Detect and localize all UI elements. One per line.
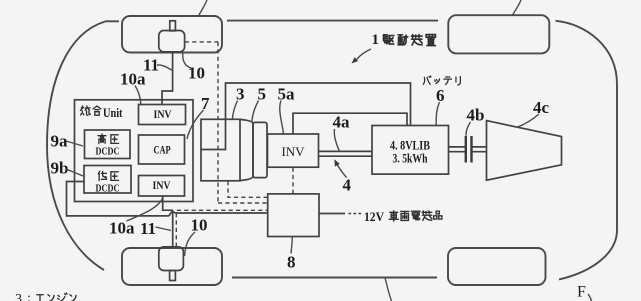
wheel front-left (122, 16, 222, 53)
label バッテリ (423, 76, 460, 85)
svg-text:4b: 4b (467, 106, 485, 125)
converter 高圧DCDC (85, 130, 131, 159)
svg-text:DCDC: DCDC (96, 184, 120, 195)
svg-text:10a: 10a (109, 219, 135, 238)
svg-text:10a: 10a (120, 70, 146, 89)
shaft 4a double line (319, 151, 373, 156)
svg-text:10: 10 (191, 216, 208, 235)
engine 3 block (201, 119, 240, 181)
wheel front-right (448, 15, 549, 53)
svg-text:CAP: CAP (154, 143, 171, 157)
svg-text:DCDC: DCDC (96, 147, 120, 158)
coupling 4b bars (466, 136, 472, 163)
shaft 11 rear (163, 196, 173, 247)
svg-text:4a: 4a (333, 113, 351, 132)
wheel rear-left (122, 248, 222, 285)
motor 10 rear stub (170, 271, 176, 281)
wire dashed from motor 10 front to node (185, 41, 218, 43)
wheel rear-right (448, 248, 546, 285)
wire MG to DC bus (226, 83, 411, 126)
transmission bell 5 (240, 119, 253, 180)
car body outline (47, 21, 617, 280)
dashed wire motor 10 rear to box 8 (176, 210, 267, 247)
svg-text:INV: INV (281, 144, 305, 159)
svg-text:9b: 9b (51, 159, 69, 178)
svg-text:10: 10 (188, 64, 205, 83)
wire dashed node to box 8 (218, 202, 268, 204)
wire 12V from unit (wrap) (67, 182, 268, 216)
wire INV to DC bus inner (293, 113, 407, 134)
svg-text:3. 5kWh: 3. 5kWh (393, 152, 428, 166)
svg-text:F: F (577, 284, 586, 301)
svg-text:INV: INV (153, 178, 171, 192)
svg-text:4c: 4c (533, 98, 550, 117)
svg-text:1: 1 (372, 32, 380, 48)
svg-text:6: 6 (436, 86, 445, 105)
svg-text:3: 3 (15, 292, 22, 301)
wire box 8 to 12V loads (319, 213, 345, 215)
svg-text:4. 8VLIB: 4. 8VLIB (390, 139, 430, 153)
inverter INV bottom (139, 176, 185, 197)
wire dashed vertical trunk x218 (217, 42, 219, 203)
label 統合Unit (80, 106, 101, 115)
svg-text:12V: 12V (364, 209, 385, 224)
svg-text:7: 7 (201, 94, 210, 113)
leader to front-left wheel (cropped label) (199, 0, 208, 16)
shaft battery to 4b (449, 147, 466, 152)
svg-text:11: 11 (140, 219, 156, 238)
battery 6 (372, 126, 449, 175)
svg-text:INV: INV (154, 107, 172, 121)
converter 低圧DCDC (84, 166, 131, 194)
cone 4c (487, 121, 562, 181)
leader to front-right wheel (cropped label) (513, 0, 522, 15)
shaft 11 front (162, 52, 173, 105)
motor-generator inner block (202, 119, 226, 149)
svg-text:9a: 9a (51, 132, 69, 151)
svg-text:8: 8 (287, 253, 296, 272)
inverter INV top (139, 105, 186, 125)
shaft 4b to 4c (473, 147, 487, 152)
capacitor CAP (139, 135, 185, 164)
unit box 統合Unit (75, 100, 194, 202)
motor 10 front (159, 31, 185, 52)
leader from car bottom edge (cropped label) (385, 278, 392, 301)
svg-text:5a: 5a (278, 85, 296, 104)
dashed wire inverter 5a to box 8 (292, 168, 294, 194)
motor 10 rear (159, 247, 184, 271)
svg-text::: : (27, 291, 31, 301)
ECU box 8 (268, 194, 319, 237)
inverter 5a INV (268, 134, 319, 167)
dashed wire engine to box 8 (228, 181, 268, 197)
svg-text:4: 4 (343, 176, 352, 195)
transmission block 5 (253, 122, 267, 177)
motor 10 front stub (170, 21, 176, 31)
svg-text:Unit: Unit (103, 105, 123, 120)
